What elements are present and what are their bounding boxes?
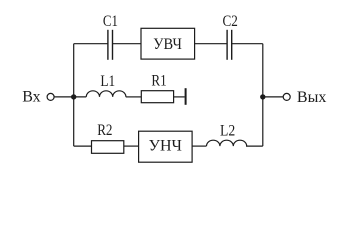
terminal Вх [47,93,54,100]
block U2 УНЧ [139,131,193,162]
wire: L1 to R1 [126,96,142,98]
wire: bottom-left to R2 [74,145,92,147]
wire: Vx terminal to node A [54,96,86,98]
svg-text:L1: L1 [100,73,115,90]
wire: right vertical bus [262,44,264,146]
wire: R2 to U2 [124,145,139,147]
capacitor C2 [227,30,232,60]
capacitor C1 [108,30,113,60]
wire: U1 to C2 [195,43,228,45]
svg-text:R2: R2 [97,122,112,139]
svg-text:УВЧ: УВЧ [153,36,182,53]
wire: U2 to L2 [192,145,206,147]
resistor R2 [92,141,124,154]
inductor L1 [86,91,126,97]
wire: C1 to U1 [113,43,142,45]
terminal bar at R1 end [185,88,187,105]
svg-text:R1: R1 [151,73,166,90]
svg-text:УНЧ: УНЧ [149,137,182,154]
resistor R1 [141,91,173,103]
wire: R1 to stub [174,96,185,98]
node B junction dot [260,94,265,99]
svg-text:Вых: Вых [297,89,326,106]
wire: C2 to top-right [232,43,263,45]
wire: top-left to C1 [74,43,108,45]
svg-text:Вх: Вх [22,89,40,106]
wire: left vertical bus [73,44,75,146]
terminal Вых [283,93,290,100]
svg-text:C1: C1 [103,13,118,30]
svg-text:C2: C2 [223,13,238,30]
wire: L2 to bottom-right [246,145,263,147]
inductor L2 [207,140,247,146]
node A junction dot [71,94,76,99]
svg-text:L2: L2 [220,122,235,139]
wire: node B to Vyx terminal [263,96,283,98]
block U1 УВЧ [141,28,195,59]
